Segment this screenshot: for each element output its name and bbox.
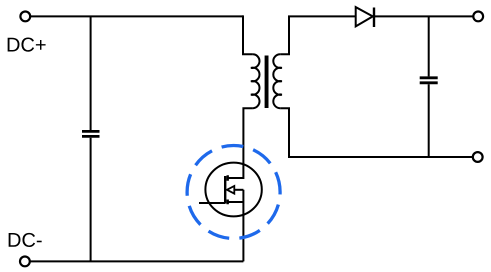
transformer T1 core — [265, 56, 269, 109]
diode D1 — [356, 7, 373, 26]
transistor Q1 channel stubs — [226, 175, 228, 204]
transformer T1 secondary winding — [273, 54, 282, 108]
wire output cap top lead — [428, 16, 430, 76]
transistor Q1 gate bar — [224, 176, 226, 204]
wire input cap top lead — [90, 16, 92, 130]
wire secondary bottom lead — [280, 108, 473, 157]
terminal output - — [473, 152, 483, 162]
wire output cap bottom lead — [428, 84, 430, 157]
terminal DC+ input — [20, 12, 30, 22]
terminal DC- input — [20, 257, 30, 267]
label DC- — [9, 233, 42, 247]
wire gate lead — [199, 202, 225, 204]
capacitor C2 output — [420, 78, 438, 83]
transistor Q1 body line — [234, 189, 243, 191]
wire input cap bottom lead — [90, 138, 92, 262]
wire primary top lead — [243, 15, 253, 54]
capacitor C1 input — [82, 131, 100, 136]
transformer T1 primary winding — [251, 54, 260, 108]
wire secondary top lead — [280, 16, 473, 54]
label DC+ — [8, 38, 46, 52]
wire top-left rail — [30, 15, 243, 17]
wire MOSFET source to bottom rail — [242, 190, 244, 262]
transistor Q1 body arrowhead — [227, 186, 234, 194]
wire primary bottom lead to MOSFET drain — [228, 108, 253, 178]
highlight dashed circle — [187, 146, 280, 239]
terminal output + — [473, 12, 483, 22]
transistor Q1 source internal — [228, 201, 244, 203]
transistor Q1 MOSFET body circle — [205, 163, 261, 217]
diode D1 cathode bar — [373, 8, 375, 28]
wire bottom rail — [30, 260, 244, 262]
